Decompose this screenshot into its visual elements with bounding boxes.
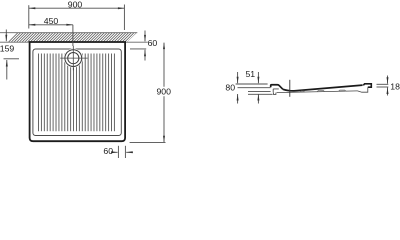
drain circle inner xyxy=(68,53,79,64)
dim 51: down arrow xyxy=(257,72,259,83)
dim 900 top: extension lines xyxy=(28,5,30,28)
section: bottom notch 1 xyxy=(300,91,305,92)
dim 80: up arrow xyxy=(237,94,239,104)
svg-text:900: 900 xyxy=(156,87,171,97)
section: right apron xyxy=(358,87,368,92)
svg-text:18: 18 xyxy=(390,82,400,92)
section: floor surface line xyxy=(283,85,363,91)
section dim: extension line L2 xyxy=(238,87,271,89)
section dim: extension line top (L1) xyxy=(236,83,268,85)
dim 450 top: dimension line xyxy=(29,24,73,26)
svg-text:80: 80 xyxy=(225,83,235,93)
dim 900 right: bottom extension line xyxy=(130,141,166,143)
svg-text:159: 159 xyxy=(0,44,14,54)
drain crosshair horizontal xyxy=(60,57,87,59)
section: bottom notch 3 xyxy=(339,90,347,91)
tray outer square xyxy=(30,42,126,141)
section: bottom notch 2 xyxy=(317,90,325,91)
svg-text:450: 450 xyxy=(44,16,59,26)
svg-text:51: 51 xyxy=(245,69,255,79)
wall hatch band xyxy=(0,33,148,43)
dim 60 bottom: extension lines xyxy=(117,146,119,158)
dim 80: down arrow xyxy=(237,72,239,83)
dim 900 top: arrows xyxy=(29,7,36,9)
dim 18: up arrow xyxy=(387,88,389,96)
dim 900 right: arrows xyxy=(163,43,165,50)
dim 900 right: dimension line (broken for text) xyxy=(163,43,165,87)
svg-text:900: 900 xyxy=(68,0,83,9)
svg-text:60: 60 xyxy=(148,38,158,48)
tray inner rim rect xyxy=(33,49,121,136)
section dim: extension line L3 xyxy=(248,91,271,93)
section dim: extension line L4 xyxy=(248,93,273,95)
dim 18: extension lines xyxy=(377,83,389,85)
svg-text:60: 60 xyxy=(103,146,113,156)
dim 60 bottom: left arrow (pointing right) xyxy=(112,151,117,153)
wall top line xyxy=(0,32,137,34)
dim 18: down arrow xyxy=(387,76,389,84)
dim 60 top-right: lower extension line xyxy=(130,48,146,50)
dim 159: drain centre extension line xyxy=(4,58,20,60)
dim 450: arrows xyxy=(29,24,36,26)
section: base bottom line xyxy=(277,91,358,93)
drain circle outer xyxy=(65,50,82,67)
wall bottom line xyxy=(0,41,148,43)
drain white background disc xyxy=(64,49,83,68)
ribs (anti-slip grooves) xyxy=(39,54,115,132)
dim 60 top-right: down arrow xyxy=(144,31,146,42)
drain crosshair vertical xyxy=(72,46,74,71)
dim 60 bottom: right arrow (pointing left) xyxy=(126,151,133,153)
dim 900 top: dimension line xyxy=(29,7,125,9)
section: right rim step xyxy=(363,84,371,87)
section: under-lip slab edge xyxy=(273,89,279,93)
dim 159 left: top arrow (down) xyxy=(5,30,7,42)
section: left lip (thick) xyxy=(271,85,283,90)
section: left foot xyxy=(274,93,276,95)
dim 51: up arrow xyxy=(257,94,259,104)
dim 450: right extension line down to drain xyxy=(72,25,74,46)
dim 159 left: bottom arrow (up) xyxy=(6,60,8,80)
section: centre line xyxy=(289,80,291,97)
dim 60 top-right: up arrow xyxy=(144,50,146,61)
